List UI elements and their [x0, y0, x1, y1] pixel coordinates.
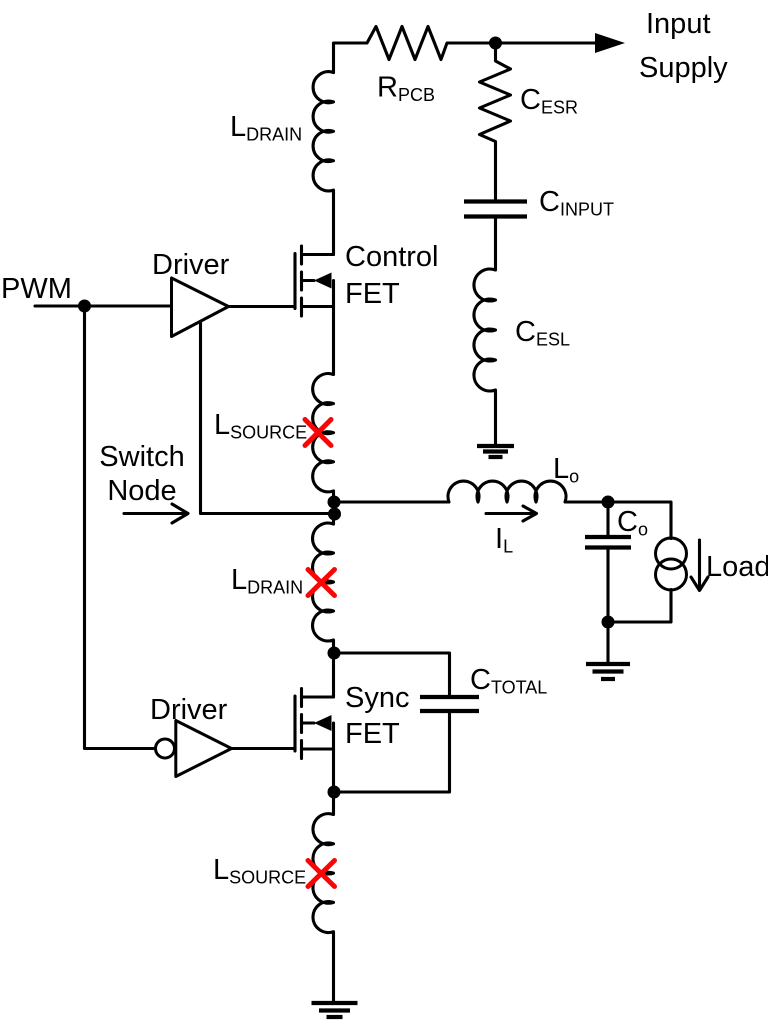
svg-text:Supply: Supply: [639, 52, 728, 84]
svg-text:Node: Node: [107, 475, 176, 507]
svg-text:Load: Load: [706, 551, 768, 583]
svg-text:Driver: Driver: [150, 694, 228, 726]
svg-text:Driver: Driver: [152, 249, 230, 281]
svg-text:FET: FET: [345, 278, 400, 310]
svg-text:Control: Control: [345, 241, 439, 273]
svg-text:Input: Input: [646, 8, 711, 40]
svg-text:PWM: PWM: [1, 273, 72, 305]
svg-text:Switch: Switch: [99, 441, 184, 473]
svg-text:Sync: Sync: [345, 682, 409, 714]
svg-text:FET: FET: [345, 718, 400, 750]
